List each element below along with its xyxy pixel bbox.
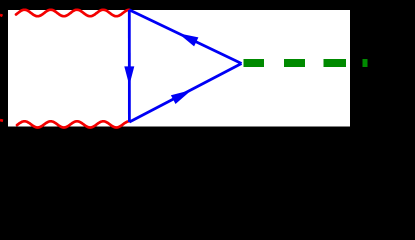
- arrow on left edge (down): [124, 66, 134, 85]
- white drawing area: [8, 10, 350, 127]
- fermion loop bottom edge: [129, 64, 241, 123]
- photon gamma1 label remnant tick: [0, 15, 3, 16]
- photon gamma1 wavy line (top): [16, 10, 130, 16]
- photon gamma2 label remnant tick: [0, 119, 3, 123]
- photon gamma2 wavy line (bottom): [17, 121, 130, 127]
- higgs dash 3: [324, 59, 347, 67]
- arrow on bottom edge (toward apex): [171, 90, 192, 104]
- arrow on top edge (toward top vertex): [178, 33, 198, 46]
- higgs dash 4 (clipped): [363, 59, 368, 67]
- canvas background: [0, 0, 415, 132]
- fermion loop top edge: [129, 10, 241, 64]
- higgs dash 2: [284, 59, 305, 67]
- fermion loop left edge: [128, 10, 131, 122]
- higgs dash 1: [244, 59, 265, 67]
